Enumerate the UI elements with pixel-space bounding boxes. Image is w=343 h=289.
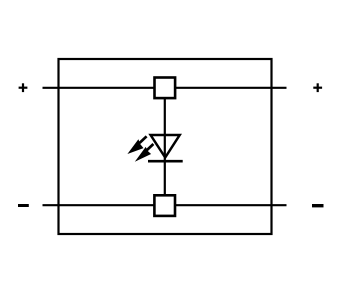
wire: vertical LED branch xyxy=(164,98,166,196)
clamp contact square (bottom, - side) xyxy=(154,195,175,216)
label: - (right) xyxy=(312,204,324,207)
label: + (right) xyxy=(313,83,322,92)
label: - (left) xyxy=(18,204,29,207)
LED cathode bar xyxy=(148,160,183,163)
wire: bottom - conductor xyxy=(43,204,287,206)
wire: top + conductor xyxy=(43,87,287,89)
clamp contact square (top, + side) xyxy=(155,78,176,99)
LED anode triangle xyxy=(151,135,180,158)
LED emission arrow 2 xyxy=(135,144,154,162)
label: + (left) xyxy=(19,83,28,92)
terminal block body outline xyxy=(59,59,272,234)
LED xyxy=(127,135,182,162)
LED emission arrow 1 xyxy=(127,136,146,154)
